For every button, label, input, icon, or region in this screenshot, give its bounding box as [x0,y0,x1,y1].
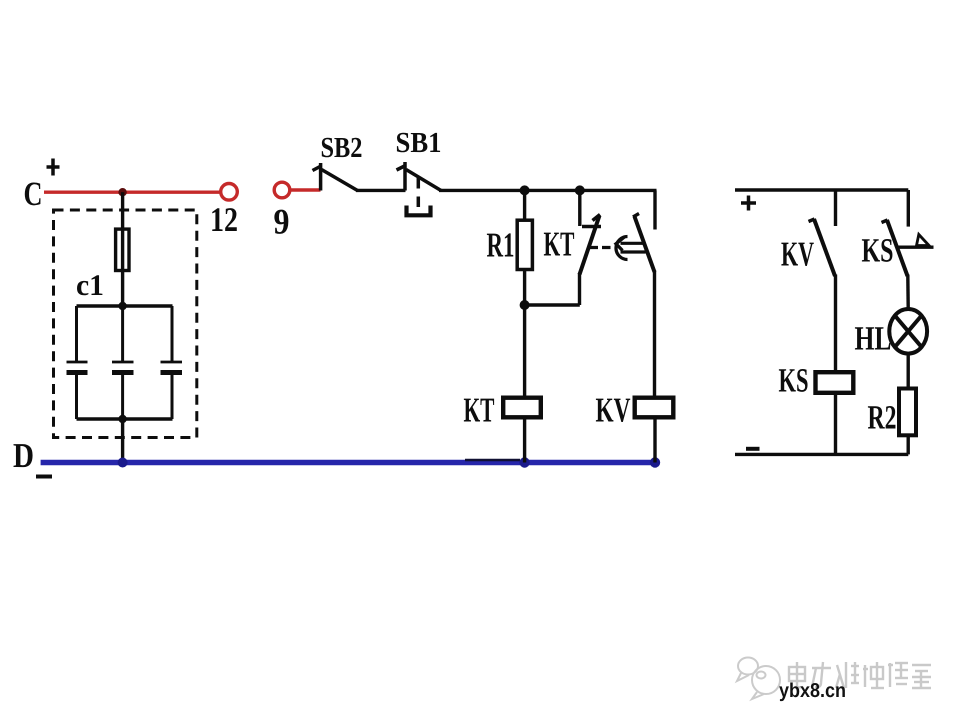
svg-text:KS: KS [779,363,809,400]
svg-text:KV: KV [596,391,631,430]
svg-text:SB2: SB2 [321,132,363,164]
delay symbol (arc with arrow and linkage) [590,237,646,260]
label + (right circuit) [741,196,756,211]
svg-text:HL: HL [855,321,892,358]
contact KT time-delay left blade [580,190,602,305]
wire KS coil to bottom rail [834,395,837,455]
svg-text:9: 9 [274,202,290,242]
wire D rail (blue) [41,460,660,466]
coil KT [503,398,541,418]
svg-text:R2: R2 [868,400,897,437]
node D rail junction left [118,458,128,468]
svg-text:KT: KT [464,391,495,430]
wire mid cap drop [121,306,124,362]
wire bottom bus to D rail [121,419,124,463]
capacitor bank C1 dashed enclosure [54,210,197,438]
wire right cap drop [171,306,174,362]
node terminal 12 (red circle) [221,184,238,201]
label + (C positive) [47,159,60,176]
watermark mascot [737,658,780,700]
node junction on C bus [118,188,126,196]
coil KV [635,398,674,418]
node terminal 9 (red circle) [274,182,290,198]
wire KV coil to D rail [653,417,656,463]
wire junction to fuse [121,192,124,230]
svg-text:12: 12 [210,201,238,239]
pushbutton SB1 (NC with actuator) [397,162,442,215]
wire left cap to bottom bus [75,373,78,420]
wire R2 to bottom rail [907,437,910,455]
wire KT coil to D rail [523,417,526,463]
wire C bus (red) [44,190,221,193]
label minus (D negative) [36,475,52,479]
wire dark overlay on D rail [465,459,520,462]
wire R1 bottom to KT coil [523,305,526,396]
wire capacitor top bus [77,304,173,307]
wire right cap to bottom bus [171,373,174,420]
label minus (right circuit) [746,447,760,451]
capacitor 3 plates [161,362,183,373]
svg-text:D: D [13,436,34,475]
svg-text:KT: KT [544,225,575,264]
svg-text:SB1: SB1 [396,127,442,159]
svg-text:c1: c1 [76,269,104,302]
wire capacitor bottom bus [77,417,173,420]
contact KV (right circuit) [809,190,836,370]
capacitor 1 plates [67,362,88,373]
resistor R1 [517,190,532,306]
pushbutton SB2 (NO) [313,163,358,191]
coil KS [816,372,854,393]
node junction KT contact top [575,185,585,195]
wire KT contact bottom link [525,303,580,306]
wire terminal 9 stub (red) [291,188,321,192]
contact KT time-delay right blade [633,190,655,396]
node bottom bus junction [118,415,126,423]
fuse FU (rect with wire through) [116,228,129,306]
capacitor 2 plates [112,362,134,373]
node junction R1 bottom [520,300,530,310]
svg-text:KV: KV [781,235,814,274]
node D rail junction KT [519,457,529,467]
node top bus junction [118,302,126,310]
wire right circuit bottom rail [735,453,908,456]
wire mid cap to bottom bus [121,373,124,420]
contact KS (right circuit, with flag) [882,190,934,308]
svg-text:C: C [24,176,43,213]
wire SB2 to SB1 [356,189,406,192]
svg-text:KS: KS [862,233,894,270]
watermark text 电力知识课堂 [789,662,931,688]
resistor R2 [899,389,916,436]
wire right circuit top rail [735,188,908,191]
node junction R1 top [520,185,530,195]
svg-text:R1: R1 [487,226,515,265]
wire HL to R2 [907,355,910,390]
lamp HL [889,309,927,354]
node D rail junction KV [650,457,660,467]
wire SB1 to R1 junction [439,189,657,192]
wire left cap drop [75,306,78,362]
svg-text:ybx8.cn: ybx8.cn [779,680,846,702]
